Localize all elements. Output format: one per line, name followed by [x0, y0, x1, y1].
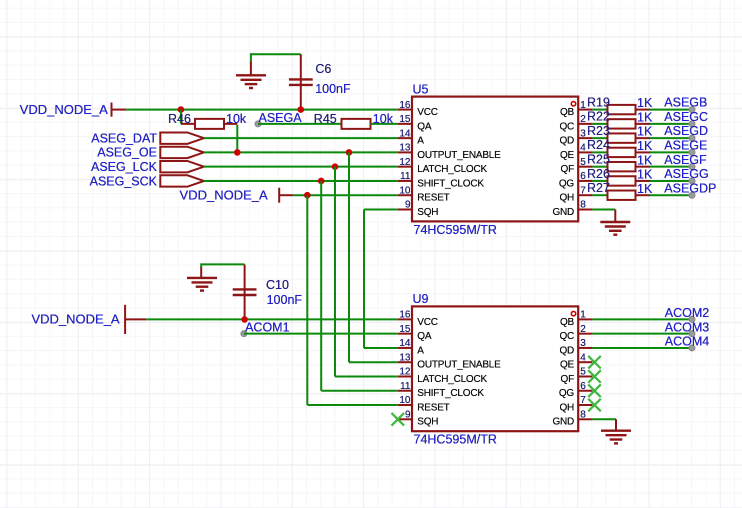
op-amp-style IC body U9 74HC595: [412, 306, 578, 431]
no-connect X on U9 pin 4: [588, 356, 601, 369]
wire bus RESET to U9: [307, 404, 398, 406]
resistor R46 right lead: [224, 123, 237, 125]
svg-text:GND: GND: [552, 207, 574, 218]
pin 9 (SQH) of U9: [398, 418, 412, 420]
resistor R22: [608, 119, 636, 128]
svg-text:ASEG_SCK: ASEG_SCK: [90, 174, 158, 188]
svg-text:ASEGD: ASEGD: [664, 124, 708, 138]
junction R46/OE: [234, 149, 241, 156]
capacitor C6 lead: [300, 54, 302, 109]
resistor R19 right lead: [636, 109, 651, 111]
wire R27 to ASEGDP: [650, 194, 692, 196]
svg-text:5: 5: [580, 157, 586, 168]
input port ASEG_OE: [160, 147, 204, 158]
wire SQH to U9 A: [364, 347, 398, 349]
ground lead (U9 GND): [615, 419, 617, 430]
pin 4 (QE) of U9: [578, 361, 592, 363]
wire ASEG_OE to U5 OUTPUT_ENABLE: [204, 151, 398, 153]
svg-text:A: A: [417, 136, 424, 147]
net attach dot ACOM4: [689, 345, 695, 351]
svg-text:1K: 1K: [637, 153, 653, 167]
wire U5 pin5 to R25: [592, 166, 607, 168]
resistor R25 right lead: [636, 166, 651, 168]
pin 9 (SQH) of U5: [398, 208, 412, 210]
svg-text:4: 4: [580, 352, 586, 363]
svg-text:QG: QG: [559, 388, 575, 399]
capacitor C10 lead: [244, 264, 246, 319]
pin 8 (GND) of U5: [578, 208, 592, 210]
ground lead (U5 GND): [614, 209, 616, 222]
pin 13 (OUTPUT_ENABLE) of U5: [398, 151, 412, 153]
svg-text:QA: QA: [417, 121, 432, 132]
wire U9 GND: [592, 418, 616, 420]
resistor R24: [608, 148, 636, 157]
svg-text:11: 11: [400, 171, 411, 182]
svg-text:1K: 1K: [637, 125, 653, 139]
svg-text:74HC595M/TR: 74HC595M/TR: [414, 223, 497, 237]
wire ground drop: [250, 53, 252, 61]
svg-text:VDD_NODE_A: VDD_NODE_A: [31, 312, 119, 327]
svg-text:15: 15: [399, 324, 411, 335]
capacitor C6: [289, 79, 313, 85]
resistor R23 right lead: [636, 137, 651, 139]
svg-text:LATCH_CLOCK: LATCH_CLOCK: [417, 374, 487, 385]
wire bus SCK to U9: [321, 390, 398, 392]
pin 10 (RESET) of U5: [398, 194, 412, 196]
resistor R19: [608, 105, 636, 114]
svg-text:QH: QH: [559, 193, 574, 204]
svg-text:QE: QE: [560, 150, 575, 161]
svg-text:R46: R46: [168, 112, 191, 126]
svg-text:R22: R22: [587, 110, 610, 124]
svg-text:QD: QD: [559, 136, 574, 147]
svg-text:OUTPUT_ENABLE: OUTPUT_ENABLE: [417, 360, 501, 371]
pin 12 (LATCH_CLOCK) of U9: [398, 375, 412, 377]
svg-text:1: 1: [580, 100, 586, 111]
wire U5 pin2 to R22: [592, 123, 607, 125]
svg-text:R26: R26: [587, 167, 610, 181]
svg-text:LATCH_CLOCK: LATCH_CLOCK: [417, 164, 487, 175]
wire U5 SQH stub: [364, 208, 398, 210]
wire bus LCK to U9: [335, 375, 398, 377]
svg-text:15: 15: [399, 114, 411, 125]
pin 1 (QB) of U9: [578, 318, 592, 320]
svg-text:ASEG_OE: ASEG_OE: [97, 146, 157, 160]
svg-text:R23: R23: [587, 124, 610, 138]
net attach dot ASEGF: [689, 164, 695, 170]
svg-text:SQH: SQH: [417, 417, 438, 428]
svg-text:10: 10: [399, 395, 411, 406]
power port VDD_NODE_A (middle): [279, 188, 293, 203]
wire U5 pin1 to R19: [592, 109, 607, 111]
junction LCK bus: [332, 163, 339, 170]
pin 3 (QD) of U9: [578, 347, 592, 349]
svg-text:14: 14: [399, 338, 411, 349]
pin 15 (QA) of U5: [398, 123, 412, 125]
power port VDD_NODE_A (top): [112, 103, 127, 117]
wire ACOM1 to U9 QA: [244, 333, 398, 335]
wire R25 to ASEGF: [650, 166, 692, 168]
svg-text:ACOM3: ACOM3: [665, 320, 710, 334]
svg-text:10k: 10k: [226, 112, 247, 126]
net attach dot ASEGD: [689, 135, 695, 141]
net attach dot ASEGB: [689, 107, 695, 113]
pin 6 (QG) of U5: [578, 180, 592, 182]
wire U5 pin4 to R24: [592, 151, 607, 153]
net attach dot ASEGE: [689, 149, 695, 155]
svg-text:R24: R24: [587, 138, 610, 152]
net attach dot ACOM2: [689, 316, 695, 322]
svg-text:U5: U5: [413, 82, 429, 96]
resistor R46: [195, 119, 224, 129]
svg-text:QA: QA: [417, 331, 432, 342]
pin 3 (QD) of U5: [578, 137, 592, 139]
svg-text:SHIFT_CLOCK: SHIFT_CLOCK: [417, 388, 484, 399]
wire bus OE vertical: [348, 152, 350, 362]
svg-text:7: 7: [580, 185, 586, 196]
wire R22 to ASEGC: [650, 123, 692, 125]
svg-text:14: 14: [399, 128, 411, 139]
capacitor C10: [233, 289, 257, 295]
wire U5 pin6 to R26: [592, 180, 607, 182]
net attach dot ACOM1: [241, 331, 247, 337]
svg-text:1K: 1K: [637, 110, 653, 124]
svg-text:3: 3: [580, 128, 586, 139]
resistor R46 left lead: [181, 123, 195, 125]
svg-text:ASEGDP: ASEGDP: [664, 181, 716, 195]
pin 7 (QH) of U9: [578, 404, 592, 406]
svg-text:100nF: 100nF: [267, 293, 303, 307]
wire U5 pin3 to R23: [592, 137, 607, 139]
svg-text:VDD_NODE_A: VDD_NODE_A: [20, 102, 108, 117]
svg-text:QF: QF: [561, 164, 575, 175]
pin 2 (QC) of U9: [578, 333, 592, 335]
wire SQH vertical to U9 A: [363, 209, 365, 347]
net attach dot ASEGC: [689, 121, 695, 127]
wire bus OE to U9: [349, 361, 398, 363]
ground lead (C6 cluster): [250, 62, 252, 76]
svg-text:ACOM4: ACOM4: [665, 335, 710, 349]
pin 5 (QF) of U5: [578, 166, 592, 168]
wire VDD to U9 VCC: [146, 318, 397, 320]
op-amp-style IC body U5 74HC595: [412, 97, 578, 222]
no-connect X on U9 pin 6: [588, 384, 601, 397]
net attach dot ASEGDP: [689, 192, 695, 198]
resistor R26: [608, 176, 636, 185]
wire VDD to U5 RESET: [293, 194, 398, 196]
svg-text:74HC595M/TR: 74HC595M/TR: [414, 433, 497, 447]
wire ground drop 2: [200, 263, 202, 267]
wire R19 to ASEGB: [650, 109, 692, 111]
svg-text:8: 8: [580, 409, 586, 420]
svg-text:2: 2: [580, 324, 586, 335]
pin 10 (RESET) of U9: [398, 404, 412, 406]
junction at C10 tap: [241, 316, 248, 323]
wire R45 to U5 QA: [371, 123, 398, 125]
wire U9 pin3 to ACOM4: [592, 347, 692, 349]
input port ASEG_LCK: [160, 161, 204, 172]
resistor R25: [608, 162, 636, 171]
svg-text:QH: QH: [559, 402, 574, 413]
pin 1 (QB) of U5: [578, 109, 592, 111]
wire bus RESET vertical: [306, 195, 308, 405]
pin 13 (OUTPUT_ENABLE) of U9: [398, 361, 412, 363]
net attach dot ASEGA: [255, 121, 261, 127]
wire U9 pin1 to ACOM2: [592, 318, 692, 320]
svg-text:ACOM2: ACOM2: [665, 306, 710, 320]
resistor R24 right lead: [636, 151, 651, 153]
svg-text:9: 9: [405, 200, 411, 211]
input port ASEG_SCK: [160, 175, 204, 186]
wire R26 to ASEGG: [650, 180, 692, 182]
resistor R23: [608, 133, 636, 142]
ground symbol at U5 GND: [600, 222, 630, 235]
svg-text:SHIFT_CLOCK: SHIFT_CLOCK: [417, 178, 484, 189]
svg-text:ASEGE: ASEGE: [664, 139, 707, 153]
svg-text:RESET: RESET: [417, 193, 449, 204]
junction at R46 tap: [178, 106, 185, 113]
svg-text:1K: 1K: [637, 96, 653, 110]
junction OE bus: [346, 149, 353, 156]
svg-text:VCC: VCC: [417, 107, 437, 118]
pin 7 (QH) of U5: [578, 194, 592, 196]
svg-text:1: 1: [580, 310, 586, 321]
wire C10-ground top link: [201, 263, 244, 265]
pin-1 indicator circle on U5: [571, 102, 575, 106]
no-connect X on U9 pin 7: [588, 399, 601, 412]
svg-text:QB: QB: [560, 317, 575, 328]
svg-text:1K: 1K: [637, 182, 653, 196]
svg-text:RESET: RESET: [417, 402, 449, 413]
ground symbol near C10: [187, 278, 217, 291]
wire VDD down to R46: [180, 110, 182, 124]
junction RESET bus: [304, 192, 311, 199]
no-connect X on U9 SQH: [392, 413, 405, 426]
wire ASEG_SCK to U5 SHIFT_CLOCK: [204, 180, 398, 182]
no-connect X on U9 pin 5: [588, 370, 601, 383]
svg-text:QC: QC: [559, 121, 574, 132]
svg-text:9: 9: [405, 409, 411, 420]
svg-text:11: 11: [400, 381, 411, 392]
svg-text:16: 16: [399, 100, 411, 111]
pin-1 indicator circle on U9: [571, 311, 575, 315]
resistor R27: [608, 191, 636, 200]
svg-text:VCC: VCC: [417, 317, 437, 328]
svg-text:QC: QC: [559, 331, 574, 342]
svg-text:6: 6: [580, 381, 586, 392]
svg-text:ASEGG: ASEGG: [664, 167, 708, 181]
ground lead (C10 cluster): [200, 267, 202, 278]
wire R24 to ASEGE: [650, 151, 692, 153]
svg-text:QE: QE: [560, 360, 575, 371]
svg-text:2: 2: [580, 114, 586, 125]
svg-text:ASEGF: ASEGF: [664, 153, 707, 167]
input port ASEG_DAT: [160, 132, 204, 143]
wire C6-ground top link: [251, 53, 301, 55]
svg-text:SQH: SQH: [417, 207, 438, 218]
svg-text:1K: 1K: [637, 168, 653, 182]
wire R46 down to OE row: [236, 125, 238, 153]
wire U5 pin7 to R27: [592, 194, 607, 196]
svg-text:12: 12: [399, 157, 411, 168]
svg-text:7: 7: [580, 395, 586, 406]
wire ASEG_DAT to U5 A: [204, 137, 398, 139]
svg-text:100nF: 100nF: [315, 82, 351, 96]
svg-text:OUTPUT_ENABLE: OUTPUT_ENABLE: [417, 150, 501, 161]
svg-text:C10: C10: [266, 278, 289, 292]
svg-text:A: A: [417, 345, 424, 356]
junction SCK bus: [318, 178, 325, 185]
svg-text:13: 13: [399, 352, 411, 363]
pin 5 (QF) of U9: [578, 375, 592, 377]
svg-text:R25: R25: [587, 152, 610, 166]
junction at C6 tap: [298, 106, 305, 113]
wire ASEGA to R45: [258, 123, 342, 125]
svg-text:QG: QG: [559, 178, 575, 189]
ground symbol at U9 GND: [601, 431, 631, 444]
svg-text:13: 13: [399, 143, 411, 154]
power port VDD_NODE_A (bottom): [125, 305, 146, 334]
wire bus LCK vertical: [334, 167, 336, 377]
svg-text:R27: R27: [587, 181, 610, 195]
svg-text:8: 8: [580, 200, 586, 211]
resistor R45: [342, 119, 371, 129]
resistor R22 right lead: [636, 123, 651, 125]
svg-text:U9: U9: [413, 292, 429, 306]
pin 6 (QG) of U9: [578, 390, 592, 392]
svg-text:ASEGC: ASEGC: [664, 110, 708, 124]
pin 11 (SHIFT_CLOCK) of U9: [398, 390, 412, 392]
svg-text:10k: 10k: [373, 112, 394, 126]
pin 4 (QE) of U5: [578, 151, 592, 153]
svg-text:ASEG_DAT: ASEG_DAT: [91, 131, 157, 145]
pin 12 (LATCH_CLOCK) of U5: [398, 166, 412, 168]
svg-text:4: 4: [580, 143, 586, 154]
svg-text:12: 12: [399, 367, 411, 378]
svg-text:R19: R19: [587, 95, 610, 109]
svg-text:6: 6: [580, 171, 586, 182]
svg-text:10: 10: [399, 185, 411, 196]
svg-text:GND: GND: [552, 417, 574, 428]
pin 11 (SHIFT_CLOCK) of U5: [398, 180, 412, 182]
svg-text:16: 16: [399, 310, 411, 321]
net attach dot ACOM3: [689, 331, 695, 337]
pin 14 (A) of U9: [398, 347, 412, 349]
ground symbol near C6: [236, 75, 266, 88]
pin 8 (GND) of U9: [578, 418, 592, 420]
svg-text:C6: C6: [315, 62, 331, 76]
svg-text:QB: QB: [560, 107, 575, 118]
svg-text:QF: QF: [561, 374, 575, 385]
pin 16 (VCC) of U9: [398, 318, 412, 320]
pin 16 (VCC) of U5: [398, 109, 412, 111]
net attach dot ASEGG: [689, 178, 695, 184]
wire R23 to ASEGD: [650, 137, 692, 139]
resistor R26 right lead: [636, 180, 651, 182]
svg-text:5: 5: [580, 367, 586, 378]
svg-text:ASEGB: ASEGB: [664, 96, 707, 110]
svg-text:1K: 1K: [637, 139, 653, 153]
svg-text:ASEG_LCK: ASEG_LCK: [91, 160, 158, 174]
wire bus SCK vertical: [320, 181, 322, 391]
resistor R27 right lead: [636, 194, 651, 196]
svg-text:3: 3: [580, 338, 586, 349]
svg-text:R45: R45: [314, 112, 337, 126]
pin 15 (QA) of U9: [398, 333, 412, 335]
pin 2 (QC) of U5: [578, 123, 592, 125]
svg-text:ACOM1: ACOM1: [245, 320, 290, 334]
wire U9 pin2 to ACOM3: [592, 333, 692, 335]
svg-text:VDD_NODE_A: VDD_NODE_A: [180, 188, 268, 203]
pin 14 (A) of U5: [398, 137, 412, 139]
wire U5 GND: [592, 208, 615, 210]
wire VDD to U5 VCC: [126, 109, 398, 111]
svg-text:QD: QD: [559, 345, 574, 356]
wire ASEG_LCK to U5 LATCH_CLOCK: [204, 166, 398, 168]
